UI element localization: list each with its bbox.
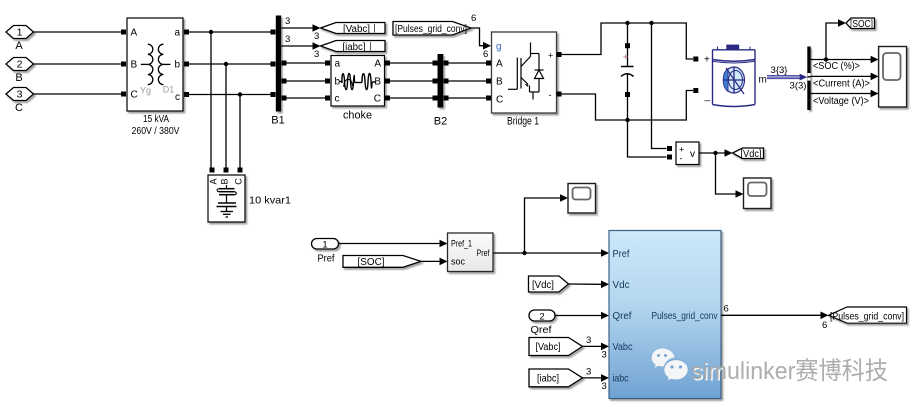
svg-text:[Vabc]: [Vabc]	[343, 24, 370, 35]
from tag [Vdc] bottom	[529, 276, 569, 292]
junction bottom rail / capacitor	[625, 118, 629, 122]
svg-text:3: 3	[602, 381, 607, 392]
inport 1 (phase A)	[6, 26, 34, 39]
scope Pref screen	[573, 188, 591, 200]
wire B2 to bridge A	[449, 62, 487, 64]
svg-text:D1: D1	[163, 85, 175, 95]
bridge 1 block (universal bridge)	[492, 32, 557, 113]
svg-text:a: a	[174, 28, 180, 39]
wire inport1 to transformer A	[34, 31, 122, 33]
svg-text:260V / 380V: 260V / 380V	[132, 126, 180, 137]
wire inport2 to transformer B	[34, 63, 122, 65]
svg-text:C: C	[234, 178, 244, 185]
choke block	[331, 56, 385, 107]
junction on phase C	[238, 92, 242, 96]
junction vm output	[713, 151, 717, 155]
from tag [SOC] bottom	[343, 256, 421, 268]
bus bar B2	[438, 54, 444, 108]
svg-text:<Current (A)>: <Current (A)>	[813, 79, 870, 90]
battery block	[693, 55, 767, 103]
svg-text:6: 6	[483, 49, 488, 60]
goto tag [Pulses_grid_conv]	[829, 307, 907, 323]
bus signal m 3{3}	[767, 76, 801, 79]
svg-text:3: 3	[285, 34, 290, 45]
svg-text:C: C	[131, 90, 138, 101]
wire Voltage row to scope	[811, 90, 879, 107]
svg-text:6: 6	[822, 320, 827, 331]
wire Pref inport to Pref_1	[339, 240, 448, 248]
load icon inductor	[217, 185, 236, 203]
svg-text:2: 2	[539, 311, 544, 322]
wire [Vabc] to subsystem	[583, 335, 610, 361]
svg-text:+: +	[704, 55, 710, 66]
svg-text:B: B	[220, 178, 230, 184]
svg-text:Pref: Pref	[613, 248, 630, 260]
svg-text:C: C	[496, 95, 503, 106]
svg-text:[Pulses_grid_conv]: [Pulses_grid_conv]	[830, 310, 904, 322]
wire inport3 to transformer C	[34, 93, 122, 95]
junction top rail / capacitor	[625, 21, 629, 25]
svg-text:[iabc]: [iabc]	[537, 374, 559, 385]
svg-text:Yg: Yg	[140, 86, 151, 96]
svg-text:Pref: Pref	[318, 254, 335, 265]
battery can icon	[713, 45, 756, 106]
svg-text:Bridge 1: Bridge 1	[507, 116, 539, 128]
svg-text:1: 1	[322, 239, 327, 250]
wire from tag to bridge g	[471, 13, 491, 60]
svg-text:6: 6	[724, 304, 729, 315]
svg-text:15 kVA: 15 kVA	[143, 114, 169, 125]
wire choke A to B2	[390, 62, 433, 64]
subsystem Pulses_grid_conv	[609, 231, 721, 399]
svg-text:Vdc: Vdc	[613, 279, 630, 291]
load icon capacitor	[217, 203, 237, 212]
svg-text:v: v	[690, 149, 695, 160]
wire tap C down to load	[239, 95, 241, 168]
svg-text:3: 3	[314, 49, 319, 60]
capacitor C1	[621, 43, 634, 97]
from tag [Pulses_grid_conv] top	[393, 22, 471, 36]
wire B2 to bridge C	[449, 97, 487, 99]
svg-text:[SOC]: [SOC]	[358, 257, 385, 268]
wire B1 to choke a	[287, 62, 326, 64]
goto tag [Vdc]	[733, 148, 764, 159]
wire Current row to scope	[811, 73, 879, 90]
wire [iabc] to subsystem	[583, 367, 610, 393]
svg-text:B2: B2	[434, 116, 447, 128]
transformer secondary winding D1	[158, 44, 170, 84]
wire [SOC] to Pref_1 soc	[421, 258, 448, 266]
wire transformer c to B1	[189, 94, 271, 96]
from tag [Vabc] bottom	[529, 338, 583, 356]
wire B1 tap to [Vabc] goto	[281, 16, 320, 42]
wire SOC branch up to [SOC] goto	[826, 19, 846, 59]
svg-text:soc: soc	[451, 257, 465, 268]
junction on phase B	[224, 62, 228, 66]
bus selector bar	[807, 47, 810, 111]
wire [Vdc] to subsystem Vdc	[569, 281, 610, 289]
from tag [iabc] bottom	[529, 369, 583, 387]
junction top rail / vm tap	[649, 21, 653, 25]
svg-text:m: m	[759, 75, 767, 86]
svg-text:1: 1	[17, 27, 23, 39]
scope Vdc	[744, 178, 772, 209]
wire branch up to scope3	[525, 194, 569, 253]
svg-text:2: 2	[17, 59, 23, 71]
svg-text:[Pulses_grid_conv]: [Pulses_grid_conv]	[395, 24, 467, 35]
svg-text:A: A	[374, 59, 381, 70]
load icon ground	[221, 212, 234, 218]
svg-text:choke: choke	[343, 110, 372, 122]
wire tap B down to load	[225, 64, 227, 168]
wire bridge plus to battery plus (top rail)	[562, 23, 694, 59]
wire vm minus tap	[628, 120, 667, 157]
svg-text:3(3): 3(3)	[790, 81, 807, 92]
svg-text:A: A	[209, 178, 219, 184]
scope Vdc screen	[748, 183, 767, 197]
wire vm output to [Vdc] goto	[699, 149, 733, 157]
svg-text:<Voltage (V)>: <Voltage (V)>	[813, 96, 869, 107]
goto tag [SOC]	[846, 18, 875, 29]
wire Qref to subsystem	[555, 312, 609, 320]
svg-text:Qref: Qref	[613, 310, 632, 322]
svg-text:[SOC]: [SOC]	[850, 19, 873, 30]
svg-text:3: 3	[586, 367, 591, 378]
inport 2 Qref	[529, 310, 555, 321]
wire B2 to bridge B	[449, 80, 487, 82]
svg-text:_: _	[704, 91, 711, 102]
svg-text:a: a	[335, 59, 341, 70]
svg-text:3{3}: 3{3}	[771, 65, 788, 76]
svg-text:[Vdc]: [Vdc]	[741, 149, 762, 160]
svg-text:B1: B1	[271, 115, 284, 127]
goto tag [Vabc]	[321, 23, 386, 34]
svg-text:[iabc]: [iabc]	[343, 42, 366, 53]
svg-text:3: 3	[314, 31, 319, 42]
scope battery screen	[883, 53, 901, 80]
svg-text:-: -	[549, 90, 552, 100]
scope Pref	[568, 184, 596, 214]
svg-text:[Vdc]: [Vdc]	[532, 280, 554, 291]
svg-text:-: -	[680, 154, 683, 164]
svg-text:Pref: Pref	[477, 248, 490, 259]
wire transformer a to B1	[189, 31, 271, 33]
three-phase load 10 kvar1	[208, 175, 245, 222]
transformer caption 15 kVA 260V / 380V	[132, 114, 180, 137]
junction on phase A	[209, 30, 213, 34]
svg-text:3: 3	[586, 335, 591, 346]
wire SOC row to scope	[811, 56, 879, 72]
svg-text:simulinker赛博科技: simulinker赛博科技	[691, 357, 888, 385]
inport 3 (phase C)	[6, 88, 34, 101]
svg-text:3: 3	[17, 89, 23, 101]
svg-text:Vabc: Vabc	[613, 341, 633, 353]
svg-text:+: +	[623, 52, 629, 63]
wire B1 to choke c	[287, 97, 326, 99]
wire subsystem output to goto	[721, 304, 829, 332]
wire choke B to B2	[390, 80, 433, 82]
wire choke C to B2	[390, 97, 433, 99]
wire B1 to choke b	[287, 80, 326, 82]
choke icon inductor coils	[340, 73, 376, 89]
goto tag [iabc]	[321, 41, 386, 52]
bus width labels	[771, 65, 807, 92]
svg-text:6: 6	[471, 13, 476, 24]
svg-text:Pref_1: Pref_1	[451, 238, 472, 249]
bridge IGBT and diode icon	[508, 43, 544, 100]
watermark wechat icon	[652, 349, 689, 382]
svg-text:3: 3	[285, 16, 290, 27]
svg-text:b: b	[174, 60, 180, 71]
wire tap A down to load	[210, 32, 212, 168]
svg-text:[Vabc]: [Vabc]	[536, 342, 561, 353]
svg-text:Qref: Qref	[531, 325, 552, 336]
transformer T1 15 kVA block	[127, 18, 183, 111]
subsystem Pref_1	[448, 233, 494, 272]
svg-text:B: B	[15, 72, 22, 84]
svg-text:<SOC (%)>: <SOC (%)>	[813, 61, 860, 72]
svg-text:+: +	[548, 50, 553, 60]
wire vm output down to scope Vdc	[716, 153, 744, 198]
battery logo	[723, 67, 744, 94]
wire capacitor branch	[627, 23, 629, 120]
bus bar B1	[276, 16, 281, 112]
wire B1 tap to [iabc] goto	[281, 34, 320, 60]
svg-text:A: A	[131, 28, 138, 39]
svg-text:iabc: iabc	[613, 373, 629, 385]
wire vm plus tap	[652, 23, 667, 149]
transformer primary winding Yg	[141, 44, 153, 84]
junction Pref_1 output	[522, 251, 526, 255]
inport 1 Pref	[312, 239, 339, 250]
svg-text:g: g	[496, 42, 502, 53]
svg-text:10 kvar1: 10 kvar1	[249, 195, 291, 207]
wire transformer b to B1	[189, 63, 271, 65]
svg-text:C: C	[15, 102, 23, 114]
voltage measurement block	[676, 142, 699, 165]
svg-text:A: A	[15, 40, 23, 52]
svg-text:C: C	[374, 94, 381, 105]
svg-text:A: A	[496, 59, 503, 70]
svg-text:B: B	[496, 77, 503, 88]
wire bridge minus to battery minus (bottom rail)	[562, 91, 694, 121]
inport 2 (phase B)	[6, 58, 34, 71]
svg-text:c: c	[175, 92, 180, 103]
scope battery	[879, 47, 907, 108]
svg-text:c: c	[335, 94, 340, 105]
svg-text:Pulses_grid_conv: Pulses_grid_conv	[652, 311, 718, 322]
junction SOC branch	[824, 57, 828, 61]
wire Pref_1 output to subsystem	[493, 249, 609, 257]
svg-text:3: 3	[602, 350, 607, 361]
svg-text:B: B	[131, 60, 138, 71]
